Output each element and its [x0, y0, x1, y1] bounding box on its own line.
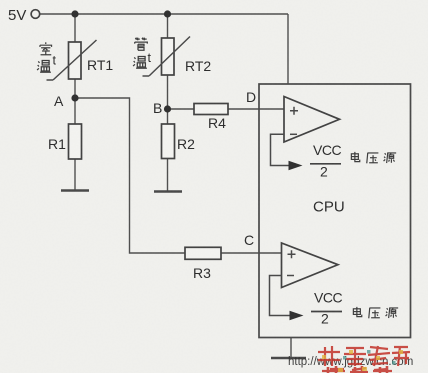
wire RT2 bottom to node B	[167, 75, 169, 109]
wire R2 to ground	[167, 159, 169, 192]
wire 5V rail down to CPU box	[287, 14, 289, 84]
wire node A right then down to R3	[75, 98, 185, 253]
label 电压源 (U2, voltage source)	[353, 307, 398, 318]
svg-text:2: 2	[320, 164, 328, 180]
label 室温t (room temperature)	[37, 42, 56, 72]
wire node B to R2	[167, 109, 169, 124]
wire RT2 top	[167, 14, 169, 38]
node C label	[244, 232, 254, 248]
label R2	[177, 136, 195, 152]
label R3	[193, 265, 211, 281]
node A	[71, 94, 78, 101]
wire R3 to op-amp U2	[221, 252, 282, 254]
feedback wire U1	[271, 134, 290, 165]
svg-text:2: 2	[321, 311, 329, 327]
label VCC/2 (U1)	[310, 142, 341, 180]
terminal 5V	[31, 10, 40, 19]
node D label	[246, 89, 256, 105]
resistor R4	[194, 104, 228, 115]
junction at RT1 top	[71, 10, 78, 17]
svg-text:R1: R1	[48, 136, 66, 152]
svg-text:RT1: RT1	[87, 57, 113, 73]
svg-text:RT2: RT2	[185, 58, 211, 74]
wire node B to R4	[168, 108, 195, 110]
label R4	[208, 115, 226, 131]
watermark	[288, 346, 413, 373]
label B	[153, 100, 162, 116]
resistor R2	[162, 124, 175, 159]
junction at RT2 top	[164, 10, 171, 17]
svg-text:t: t	[53, 54, 57, 68]
label R1	[48, 136, 66, 152]
svg-text:R4: R4	[208, 115, 226, 131]
arrow to VCC/2 (U2)	[290, 311, 304, 320]
ground R2	[154, 190, 182, 193]
wire R1 to ground	[74, 159, 76, 190]
label 电压源 (U1, voltage source)	[351, 152, 396, 163]
ground CPU	[271, 357, 306, 360]
thermistor RT1	[47, 40, 97, 80]
label CPU	[313, 199, 345, 216]
svg-text:5V: 5V	[8, 7, 26, 24]
svg-text:VCC: VCC	[314, 290, 342, 306]
label A	[54, 93, 64, 109]
wire R4 to op-amp U1	[228, 108, 284, 110]
svg-text:CPU: CPU	[313, 199, 345, 216]
feedback wire U2	[270, 276, 291, 316]
wire CPU to ground	[290, 338, 292, 359]
svg-text:R3: R3	[193, 265, 211, 281]
label RT1	[87, 57, 113, 73]
label VCC/2 (U2)	[311, 290, 342, 327]
svg-text:R2: R2	[177, 136, 195, 152]
ground R1	[61, 189, 89, 192]
wire node A to R1	[74, 98, 76, 124]
op-amp U1	[284, 97, 340, 143]
label 5V	[8, 7, 26, 24]
wire RT1 top	[74, 14, 76, 42]
svg-text:D: D	[246, 89, 256, 105]
svg-text:t: t	[148, 51, 152, 65]
svg-text:B: B	[153, 100, 162, 116]
svg-text:VCC: VCC	[313, 142, 341, 158]
arrow to VCC/2 (U1)	[289, 161, 303, 170]
resistor R1	[69, 124, 82, 159]
node B	[164, 105, 171, 112]
op-amp U2	[282, 243, 339, 288]
label RT2	[185, 58, 211, 74]
wire RT1 bottom to node A	[74, 79, 76, 98]
label 管温t (pipe temperature)	[133, 38, 151, 69]
svg-text:A: A	[54, 93, 64, 109]
wire top rail	[40, 13, 288, 15]
svg-text:C: C	[244, 232, 254, 248]
resistor R3	[185, 247, 221, 259]
thermistor RT2	[143, 37, 191, 77]
CPU box	[259, 84, 411, 338]
